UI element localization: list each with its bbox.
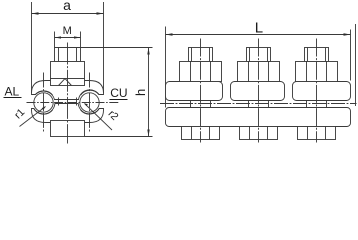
bolt 1 thread minor lines <box>191 48 193 62</box>
svg-text:a: a <box>63 0 71 13</box>
centerline bolt vertical left view <box>67 43 69 144</box>
centerline conductor AL vertical <box>43 73 45 133</box>
bolt 1 shank <box>191 101 211 108</box>
conductor CU circle <box>80 93 99 112</box>
bolt 2 top nut facets <box>248 62 250 82</box>
saddle pad 2 <box>231 82 285 101</box>
stud thread minor line right <box>76 48 78 62</box>
dimension h arrow bottom <box>147 130 149 137</box>
bolt 1 bottom nut facets <box>191 127 193 140</box>
dimension L line <box>166 34 351 36</box>
bolt 3 shank <box>307 101 327 108</box>
dimension a arrow left <box>32 12 39 14</box>
dimension M extension line left <box>54 32 56 48</box>
dimension L extension line right <box>350 30 352 81</box>
label CU underline <box>110 99 128 101</box>
conductor AL groove arc top <box>35 91 52 95</box>
centerline bolt 3 vertical <box>316 39 318 143</box>
svg-text:r2: r2 <box>106 108 121 123</box>
centerline conductor CU vertical <box>89 73 91 133</box>
svg-text:CU: CU <box>110 86 127 100</box>
bolt 2 thread minor lines <box>249 48 251 62</box>
dimension a line <box>32 13 104 15</box>
bolt 2 shank <box>249 101 269 108</box>
svg-text:AL: AL <box>5 85 20 99</box>
conductor CU groove arc top <box>81 90 99 95</box>
dimension L arrow left <box>166 33 173 35</box>
upper clamp half outline <box>32 81 104 100</box>
bolt 2 top nut <box>238 62 280 82</box>
label AL underline <box>4 97 22 99</box>
conductor AL groove arc bottom <box>34 109 53 115</box>
dimension h arrow top <box>147 48 149 55</box>
leader r1 <box>20 107 46 127</box>
bolt 1 bottom nut <box>182 127 220 140</box>
bolt 3 top nut facets <box>306 62 308 82</box>
conductor AL circle <box>34 93 53 112</box>
stray border line right <box>355 24 357 106</box>
bolt 1 top nut <box>180 62 222 82</box>
bolt 3 thread minor lines <box>307 48 309 62</box>
bolt 3 bottom nut <box>298 127 336 140</box>
centerline conductor horizontal right view <box>160 103 357 105</box>
dimension h bottom extension line <box>85 136 153 138</box>
dimension h top extension line <box>55 47 153 49</box>
dimension a arrow right <box>97 12 104 14</box>
conductor CU groove arc bottom <box>81 109 100 115</box>
bolt shank hidden tick left <box>58 98 60 106</box>
centerline bolt 2 vertical <box>258 39 260 143</box>
stud thread minor line left <box>58 48 60 62</box>
leader r2 arrowhead <box>84 103 88 106</box>
bolt 3 top nut <box>296 62 338 82</box>
centerline bolt 1 vertical <box>200 39 202 143</box>
centerline conductors horizontal left view <box>27 102 120 104</box>
dimension L extension line left <box>165 27 167 108</box>
bolt 2 bottom nut facets <box>249 127 251 140</box>
bolt 3 stud <box>305 48 329 62</box>
leader r2 <box>85 104 113 131</box>
leader r1 arrowhead <box>42 106 46 110</box>
dimension L arrow right <box>344 33 351 35</box>
bolt 2 stud <box>247 48 271 62</box>
bolt head bottom left view <box>51 121 85 137</box>
dimension a extension line left <box>31 2 33 93</box>
dimension M extension line right <box>80 32 82 48</box>
dimension h line <box>148 48 150 137</box>
bottom bar front view <box>166 108 351 127</box>
nut left view <box>51 62 85 79</box>
bolt shank hidden tick right <box>76 98 78 106</box>
dimension M arrow right <box>74 36 81 38</box>
svg-text:r1: r1 <box>12 106 27 121</box>
svg-text:M: M <box>63 25 72 37</box>
spring washer left view <box>51 79 85 86</box>
bolt 2 bottom nut <box>240 127 278 140</box>
bolt 3 bottom nut facets <box>307 127 309 140</box>
dimension a extension line right <box>103 2 105 93</box>
bolt 1 stud <box>189 48 213 62</box>
bolt 1 top nut facets <box>190 62 192 82</box>
spring washer slash <box>59 79 72 86</box>
saddle pad 1 <box>166 82 223 101</box>
svg-text:h: h <box>133 89 148 96</box>
saddle pad 3 <box>293 82 351 101</box>
svg-text:L: L <box>255 20 263 37</box>
dimension M arrow left <box>55 36 62 38</box>
lower clamp half outline <box>32 104 104 123</box>
stud thread outer left view <box>55 48 81 62</box>
dimension M line <box>55 37 81 39</box>
